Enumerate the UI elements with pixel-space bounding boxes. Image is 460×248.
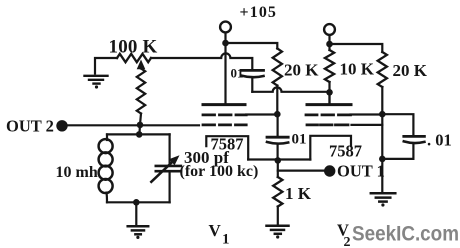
node C: V2 plate feed junction <box>326 89 333 96</box>
tube V1 7587: plate <box>203 103 245 106</box>
resistor 10K <box>325 50 334 82</box>
capacitor C2 .01 <box>267 136 288 139</box>
tube V2: cathode with leads <box>310 136 351 160</box>
svg-text:20 K: 20 K <box>284 61 319 80</box>
svg-text:1: 1 <box>222 232 230 248</box>
capacitor C3 .01 <box>404 135 425 138</box>
wire: OUT2 to V1 grid <box>68 124 199 126</box>
wire: node C to V2 plate <box>328 92 330 104</box>
wire: C1 bottom to V2 plate node, hop over 20K lead <box>252 87 329 91</box>
svg-text:. 01: . 01 <box>427 131 452 150</box>
wire: node E down to 1K <box>277 160 279 177</box>
node J: tank bottom junction <box>133 199 140 206</box>
wire: cathode to OUT 1 <box>278 170 324 172</box>
svg-text:10 mh: 10 mh <box>56 164 98 181</box>
svg-text:OUT 1: OUT 1 <box>337 162 385 181</box>
tube V1: cathode with leads <box>206 136 248 159</box>
node I: tank top junction <box>136 131 143 138</box>
wire: C3 bottom to node G <box>382 158 413 160</box>
svg-text:+105: +105 <box>240 4 278 21</box>
inductor 10mh <box>106 134 108 140</box>
svg-text:20 K: 20 K <box>393 61 428 80</box>
node E: cathode junction <box>275 157 282 164</box>
wire: ground lead of 100K pot <box>95 58 117 74</box>
svg-text:OUT 2: OUT 2 <box>6 117 54 136</box>
node F: screen/20K/C3 junction <box>379 111 386 118</box>
ground (pot left) <box>85 76 108 89</box>
wire: left terminal down to V1 plate <box>224 33 226 105</box>
node H: tap junction on OUT2 wire <box>137 122 144 129</box>
wire: pot output with hop over plate-feed <box>151 53 252 68</box>
ground (1K) <box>267 226 289 239</box>
node D: screen/20K/C2 junction <box>274 111 281 118</box>
terminal OUT 1 <box>324 165 335 176</box>
wire: 1K to ground <box>277 207 279 224</box>
svg-text:100 K: 100 K <box>109 37 158 58</box>
tank circuit bottom wire <box>107 201 170 203</box>
terminal +105 left <box>220 22 231 33</box>
svg-text:1 K: 1 K <box>285 184 312 203</box>
terminal +105 right <box>324 24 335 35</box>
tube V1: screen grid (dashed) <box>203 114 246 117</box>
svg-text:(for 100 kc): (for 100 kc) <box>180 163 259 180</box>
svg-text:7587: 7587 <box>329 142 362 161</box>
resistor 1K <box>273 177 282 207</box>
node G: C3 bottom junction <box>379 156 386 163</box>
terminal OUT 2 <box>56 120 67 131</box>
wire: right 20K bottom lead <box>381 87 383 114</box>
variable capacitor 300pf: plates <box>156 165 181 168</box>
wire: right rail down <box>381 114 383 159</box>
node A: left supply junction <box>222 40 229 47</box>
wire: cathode bus V1 to 1K node <box>248 158 278 160</box>
wire: V2 grid to right rail <box>352 124 383 126</box>
wire: node H to tank top <box>138 125 141 134</box>
tube V2: plate <box>307 103 351 106</box>
ground (right rail) <box>371 193 396 206</box>
svg-text:SeekIC.com: SeekIC.com <box>352 222 459 246</box>
svg-text:10 K: 10 K <box>340 60 375 79</box>
resistor 20K (left) <box>273 49 282 86</box>
resistor from wiper tap (unlabeled) <box>137 69 145 114</box>
variable capacitor arrow <box>151 161 173 182</box>
svg-text:01: 01 <box>231 65 244 80</box>
potentiometer wiper arrow <box>140 64 142 69</box>
wire: tap resistor to OUT2 line <box>140 114 141 125</box>
capacitor C1 .01 <box>242 69 264 72</box>
wire: node A to 20K top <box>226 43 278 49</box>
wire: 10K bottom to V2 plate <box>328 82 330 104</box>
tank circuit top wire <box>107 133 170 135</box>
wire: node B to right 20K top <box>330 44 383 52</box>
ground (tank) <box>128 226 149 239</box>
resistor 20K (right) <box>378 52 387 87</box>
wire: right terminal down <box>328 35 330 50</box>
wire: V2 screen to node F <box>351 113 380 115</box>
wire: 20K bottom to screen node <box>276 86 278 114</box>
wire: node G to ground <box>381 159 383 192</box>
node B: right supply junction <box>326 41 333 48</box>
wire: tank to ground <box>135 202 137 224</box>
tube V2: screen grid (dashed) <box>306 114 351 117</box>
wire: cathode bus to V2 <box>278 158 311 160</box>
svg-text:2: 2 <box>344 235 351 248</box>
variable capacitor 300pf: leads <box>169 134 171 202</box>
tube V2: control grid (dashed) <box>307 124 348 127</box>
tube V1: control grid (dashed) <box>203 124 246 127</box>
resistor 100K potentiometer <box>117 54 151 62</box>
wire: node F to C3 top <box>382 114 413 134</box>
svg-text:V: V <box>209 221 222 240</box>
wire: V1 screen to node D <box>246 113 274 115</box>
svg-text:01: 01 <box>292 132 307 148</box>
